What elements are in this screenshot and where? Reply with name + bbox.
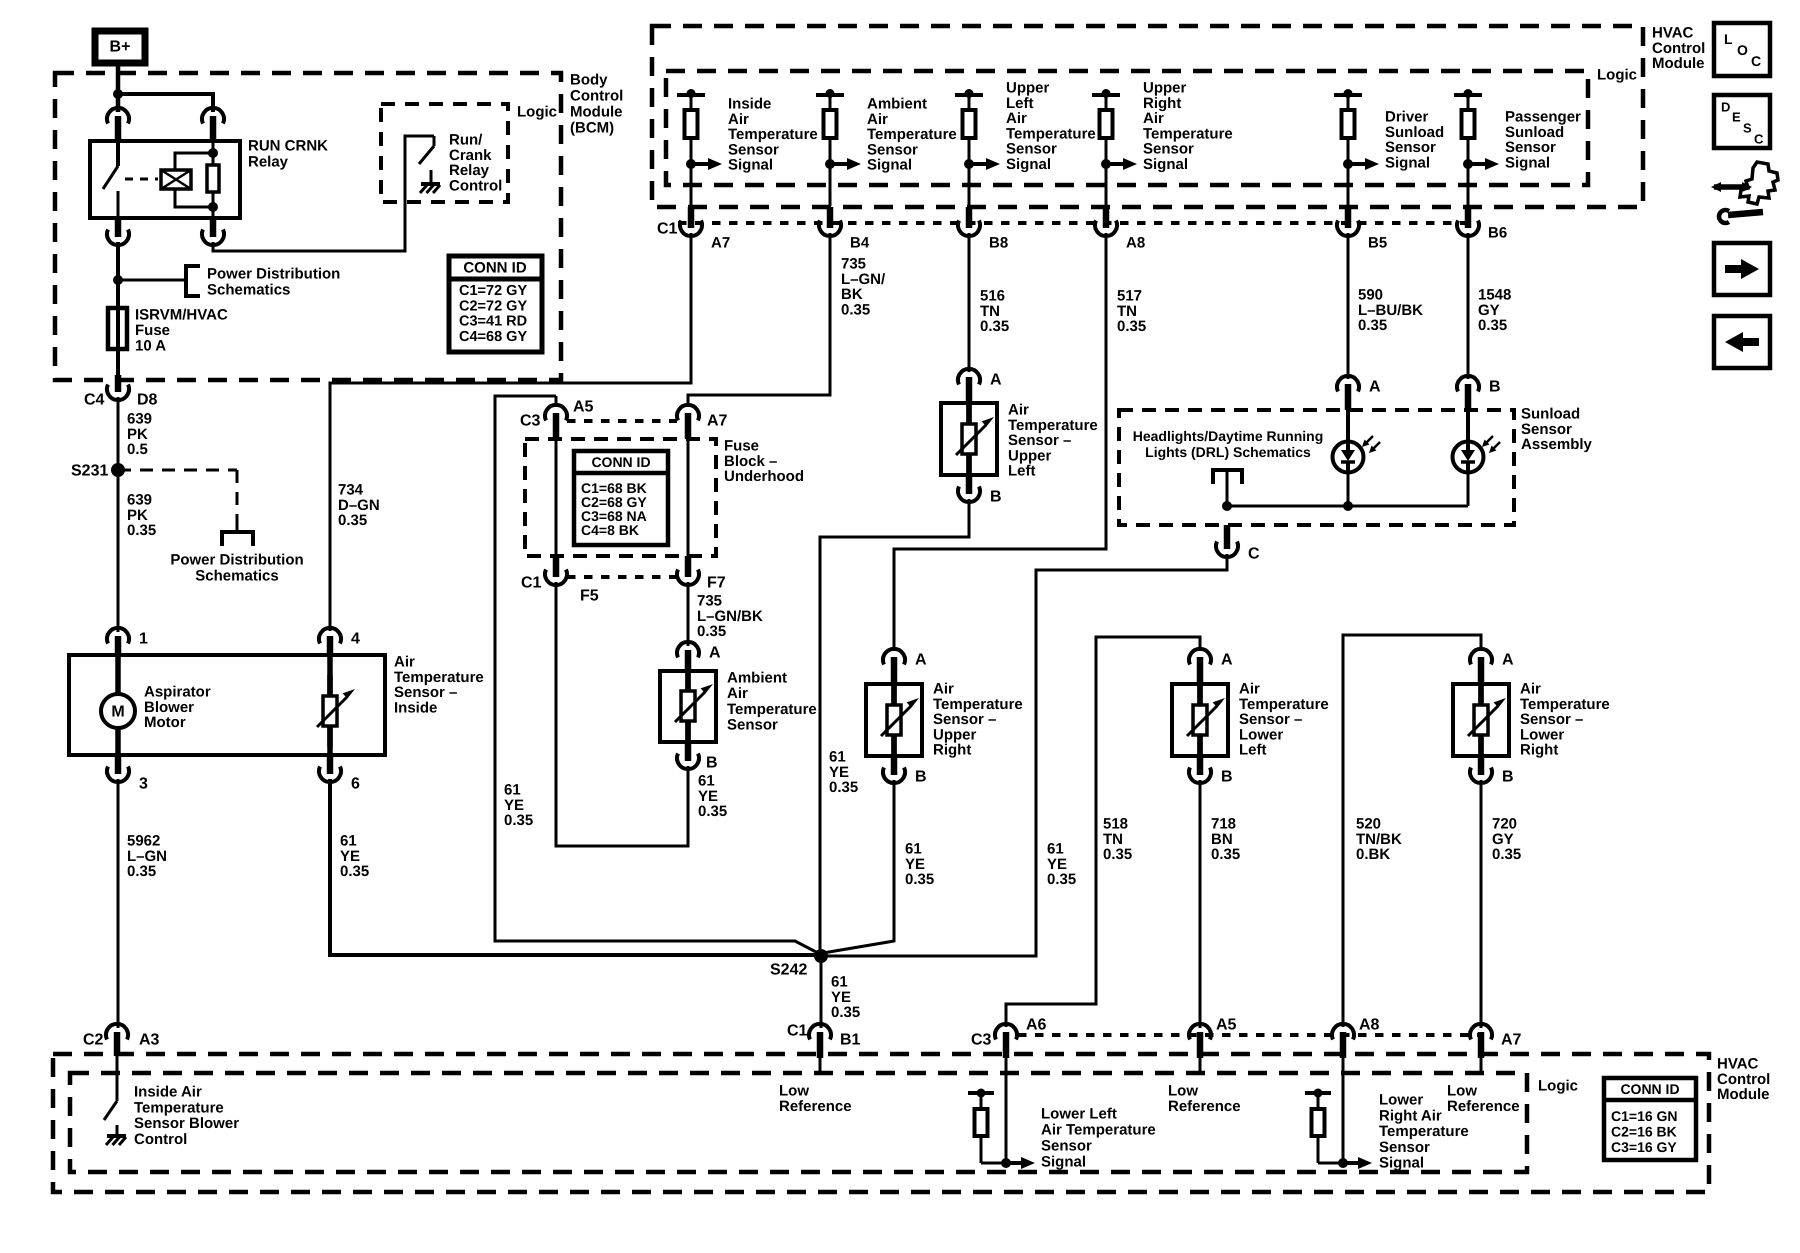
- connector A (lower right sensor): [1470, 649, 1514, 684]
- DRL reference bracket: [1213, 470, 1242, 506]
- svg-text:Signal: Signal: [1385, 154, 1430, 171]
- svg-text:Logic: Logic: [517, 104, 557, 121]
- svg-text:Temperature: Temperature: [134, 1099, 224, 1116]
- inside air temp sensor blower control label: [134, 1084, 239, 1148]
- svg-text:0.35: 0.35: [338, 512, 367, 529]
- battery feed B+ terminal: [95, 31, 145, 63]
- svg-text:S242: S242: [770, 962, 807, 979]
- svg-text:Body: Body: [570, 72, 608, 89]
- svg-text:A7: A7: [711, 235, 730, 252]
- svg-text:0.35: 0.35: [1211, 846, 1240, 863]
- wire label 718 BN 0.35: [1211, 816, 1240, 864]
- ambient air temperature sensor thermistor: [675, 670, 713, 742]
- svg-text:A7: A7: [1501, 1032, 1522, 1049]
- driver sunload sensor signal input: [1334, 89, 1444, 206]
- wire label 61 YE 0.35 (S242): [831, 974, 860, 1022]
- svg-text:Right: Right: [933, 742, 971, 759]
- HVAC logic dashed box (bottom): [70, 1073, 1527, 1172]
- svg-text:Sensor: Sensor: [1041, 1138, 1092, 1155]
- CONN ID table (bottom): [1604, 1078, 1696, 1160]
- svg-text:C3: C3: [520, 413, 541, 430]
- wire label 734 D-GN 0.35: [338, 482, 380, 530]
- wire 61 YE F5 loop to ambient sensor B: [556, 582, 688, 846]
- svg-text:F7: F7: [707, 575, 726, 592]
- wire label 61 YE 0.35 (upper left): [829, 749, 858, 797]
- wire label 61 YE 0.35 (sunload): [1047, 841, 1076, 889]
- aspirator blower motor label: [144, 684, 211, 732]
- svg-text:A7: A7: [707, 413, 728, 430]
- wire label 639 PK 0.5: [127, 411, 152, 459]
- svg-text:Lower: Lower: [1379, 1092, 1423, 1109]
- run/crank relay control label: [449, 132, 502, 195]
- svg-text:0.35: 0.35: [905, 871, 934, 888]
- connector C4/D8 labels: [84, 392, 158, 409]
- connector B (upper left sensor): [958, 475, 1002, 506]
- svg-text:C: C: [1248, 546, 1260, 563]
- connector pin 6: [319, 755, 360, 793]
- svg-text:Air Temperature: Air Temperature: [1041, 1122, 1156, 1139]
- svg-text:0.35: 0.35: [1492, 846, 1521, 863]
- svg-text:C2: C2: [83, 1032, 104, 1049]
- svg-text:S: S: [1743, 121, 1752, 136]
- svg-text:C1: C1: [657, 221, 678, 238]
- connector A (upper right sensor): [883, 649, 927, 684]
- wire label 518 TN 0.35: [1103, 816, 1132, 864]
- connector pin B4: [819, 207, 870, 252]
- air temperature sensor upper right thermistor: [881, 684, 919, 756]
- splice S242: [770, 949, 828, 979]
- wire 517 TN (A8 to upper right sensor): [894, 233, 1106, 651]
- connector pin B8: [958, 207, 1008, 252]
- svg-text:Left: Left: [1008, 463, 1036, 480]
- svg-text:Temperature: Temperature: [727, 701, 817, 718]
- svg-text:A5: A5: [573, 399, 594, 416]
- air temperature sensor - inside label: [394, 654, 484, 717]
- wire B+ to relay: [116, 63, 121, 112]
- svg-text:B8: B8: [989, 235, 1008, 252]
- wire 734 D-GN (C1/A7 to inside sensor): [330, 233, 691, 631]
- connector B (sunload): [1457, 376, 1501, 410]
- svg-text:B: B: [1502, 769, 1514, 786]
- svg-text:C: C: [1754, 132, 1764, 147]
- connector A (ambient sensor): [677, 642, 721, 671]
- sunload sensor assembly dashed box: [1119, 410, 1514, 525]
- svg-text:Fuse: Fuse: [135, 322, 170, 339]
- svg-text:A5: A5: [1216, 1017, 1237, 1034]
- wire label 61 YE 0.35 (ambient B): [698, 773, 727, 821]
- junction sunload mid: [1343, 501, 1353, 511]
- motor M symbol: [101, 655, 135, 755]
- run/crank control ground: [420, 170, 440, 193]
- svg-text:A8: A8: [1359, 1017, 1380, 1034]
- svg-text:B: B: [1221, 769, 1233, 786]
- svg-text:CONN ID: CONN ID: [1620, 1081, 1679, 1097]
- upper left air temperature sensor signal input: [955, 80, 1096, 207]
- svg-text:0.35: 0.35: [1478, 317, 1507, 334]
- wire relay to run/crank control: [213, 136, 434, 251]
- air temperature sensor lower right thermistor: [1468, 684, 1506, 756]
- svg-text:(BCM): (BCM): [570, 120, 614, 137]
- svg-text:C3=41 RD: C3=41 RD: [459, 314, 527, 330]
- svg-text:0.35: 0.35: [1358, 317, 1387, 334]
- svg-text:B6: B6: [1488, 225, 1507, 242]
- air temperature sensor lower left thermistor: [1187, 684, 1225, 756]
- svg-text:A3: A3: [139, 1032, 160, 1049]
- svg-text:B5: B5: [1368, 235, 1387, 252]
- svg-text:0.BK: 0.BK: [1356, 846, 1390, 863]
- svg-text:4: 4: [351, 631, 360, 648]
- svg-text:0.35: 0.35: [127, 522, 156, 539]
- connector C3/A5 (fuse block): [520, 396, 594, 439]
- aspirator blower motor box: [69, 655, 385, 755]
- svg-text:A: A: [1221, 652, 1233, 669]
- connector C1 label: [657, 221, 678, 238]
- svg-text:Relay: Relay: [248, 154, 289, 171]
- passenger sunload sensor signal input: [1454, 89, 1581, 206]
- HVAC control module label (bottom): [1717, 1056, 1770, 1104]
- connector relay pin bottom-right: [202, 218, 224, 245]
- connector C3/A6: [971, 1017, 1047, 1059]
- svg-text:A: A: [709, 645, 721, 662]
- run/crank control switch: [419, 136, 434, 164]
- wire label 61 YE 0.35 (upper right): [905, 841, 934, 889]
- wire S242 to B1: [820, 956, 823, 1028]
- connector A (upper left sensor): [958, 369, 1002, 403]
- wire 718 BN lower left B to A5: [1199, 780, 1202, 1028]
- ambient air temperature sensor signal input: [816, 89, 957, 206]
- connector pin A8: [1095, 207, 1145, 252]
- svg-text:CONN ID: CONN ID: [591, 454, 650, 470]
- CONN ID table (fuse block): [574, 451, 668, 545]
- wire label 517 TN 0.35: [1117, 288, 1146, 336]
- HVAC control module label (top): [1652, 25, 1705, 73]
- svg-text:D: D: [1721, 100, 1730, 115]
- lower right air temperature sensor signal input: [1305, 1058, 1469, 1172]
- arrow left icon: [1714, 316, 1770, 368]
- svg-text:Inside: Inside: [394, 699, 437, 716]
- air temperature sensor upper left label: [1008, 402, 1098, 480]
- svg-text:D8: D8: [137, 392, 158, 409]
- HVAC logic label (top): [1597, 67, 1637, 84]
- connector B (lower left sensor): [1189, 756, 1233, 786]
- svg-text:B4: B4: [850, 235, 870, 252]
- svg-text:Signal: Signal: [1379, 1155, 1424, 1172]
- svg-text:0.35: 0.35: [1117, 318, 1146, 335]
- BCM label: [570, 72, 623, 137]
- svg-text:C2=16 BK: C2=16 BK: [1611, 1124, 1677, 1140]
- svg-text:Right Air: Right Air: [1379, 1107, 1442, 1124]
- arrow right icon: [1714, 243, 1770, 295]
- connector pin A7: [680, 207, 730, 252]
- sunload sensor assembly label: [1521, 406, 1593, 454]
- RUN CRNK relay label: [248, 138, 328, 171]
- svg-text:C4: C4: [84, 392, 105, 409]
- LOC icon: [1714, 23, 1770, 76]
- air temperature sensor lower right label: [1520, 681, 1610, 759]
- HVAC logic label (bottom): [1538, 1078, 1578, 1095]
- svg-text:Schematics: Schematics: [195, 568, 278, 585]
- wire 735 F7 to ambient sensor A: [687, 582, 690, 646]
- wire relay to power distribution: [116, 242, 120, 375]
- connector A5 (bottom): [1189, 1017, 1237, 1059]
- wire 61 YE sunload C to S242: [827, 554, 1227, 956]
- wire 61 YE upper left B to S242: [820, 499, 969, 950]
- svg-text:C4=8 BK: C4=8 BK: [581, 522, 639, 538]
- svg-text:0.35: 0.35: [831, 1004, 860, 1021]
- svg-text:Control: Control: [449, 177, 502, 194]
- svg-text:C: C: [1751, 53, 1761, 69]
- svg-text:0.35: 0.35: [698, 803, 727, 820]
- low reference label (B1): [779, 1083, 852, 1115]
- air temperature sensor upper right box: [866, 684, 922, 756]
- svg-text:Inside Air: Inside Air: [134, 1084, 202, 1101]
- svg-text:Signal: Signal: [867, 157, 912, 174]
- relay switch: [103, 141, 118, 218]
- bottom connector dotted line: [1018, 1033, 1481, 1037]
- car adjust icon: [1711, 162, 1778, 223]
- wire label 61 YE 0.35 (F5): [504, 782, 533, 830]
- air temperature sensor lower left box: [1172, 684, 1228, 756]
- svg-text:C3: C3: [971, 1032, 992, 1049]
- connector pin 3: [107, 755, 148, 793]
- HVAC C1 connector dotted line: [678, 221, 1480, 225]
- fuse label: [135, 307, 228, 355]
- svg-text:E: E: [1732, 110, 1741, 125]
- svg-text:B: B: [990, 489, 1002, 506]
- svg-text:Module: Module: [1717, 1086, 1770, 1103]
- relay armature link dashes: [125, 178, 158, 181]
- wire 720 GY lower right B to A7: [1480, 780, 1483, 1028]
- air temperature sensor lower right box: [1453, 684, 1509, 756]
- svg-text:C1: C1: [521, 575, 542, 592]
- headlights DRL schematics label: [1133, 428, 1324, 460]
- svg-text:A: A: [1369, 379, 1381, 396]
- wire A5 low reference stub: [1199, 1058, 1202, 1073]
- svg-text:A: A: [915, 652, 927, 669]
- svg-text:Signal: Signal: [1143, 156, 1188, 173]
- svg-text:Schematics: Schematics: [207, 282, 290, 299]
- svg-text:0.35: 0.35: [127, 863, 156, 880]
- svg-text:Left: Left: [1239, 742, 1267, 759]
- svg-text:CONN ID: CONN ID: [463, 260, 527, 277]
- connector pin 1: [107, 628, 148, 655]
- svg-text:Module: Module: [1652, 55, 1705, 72]
- relay coil resistor: [207, 141, 219, 218]
- svg-text:Power Distribution: Power Distribution: [207, 266, 340, 283]
- ambient air temperature sensor box: [660, 671, 716, 742]
- svg-text:3: 3: [139, 776, 148, 793]
- wire label 639 PK 0.35: [127, 492, 156, 540]
- air temperature sensor lower left label: [1239, 681, 1329, 759]
- wire label 516 TN 0.35: [980, 288, 1009, 336]
- svg-text:Logic: Logic: [1597, 67, 1637, 84]
- svg-text:0.35: 0.35: [697, 623, 726, 640]
- wire label 735 L-GN/BK 0.35 (F7): [697, 593, 763, 641]
- wire label 520 TN/BK 0.BK: [1356, 816, 1402, 864]
- junction sunload left: [1222, 501, 1232, 511]
- body control module (BCM) dashed box: [55, 73, 561, 380]
- connector C1/F5 (fuse block): [521, 556, 599, 605]
- svg-text:Right: Right: [1520, 742, 1558, 759]
- RUN CRNK relay box: [90, 141, 240, 218]
- svg-text:B: B: [1489, 379, 1501, 396]
- svg-text:Control: Control: [570, 88, 623, 105]
- svg-text:Signal: Signal: [1006, 156, 1051, 173]
- svg-text:Power Distribution: Power Distribution: [170, 552, 303, 569]
- DESC icon: [1714, 95, 1770, 148]
- svg-text:Sensor: Sensor: [1379, 1139, 1430, 1156]
- connector relay pin bottom-left: [107, 218, 129, 245]
- svg-text:F5: F5: [580, 588, 599, 605]
- svg-text:Sensor Blower: Sensor Blower: [134, 1115, 239, 1132]
- sunload common wire: [1227, 472, 1468, 506]
- fuse block internal wire right: [687, 439, 690, 556]
- connector pin 4: [319, 628, 360, 655]
- svg-text:Assembly: Assembly: [1521, 436, 1593, 453]
- fuse block dotted line bottom: [567, 575, 677, 579]
- svg-text:Reference: Reference: [1168, 1098, 1241, 1115]
- connector A7 (bottom): [1470, 1024, 1522, 1058]
- wire 518 TN (A6 to lower left sensor): [1006, 637, 1200, 1027]
- wire 61 YE upper right B to S242: [823, 780, 894, 953]
- svg-text:ISRVM/HVAC: ISRVM/HVAC: [135, 307, 228, 324]
- svg-text:B1: B1: [840, 1032, 861, 1049]
- wire 61 YE fuse A5 to S242: [495, 396, 818, 953]
- svg-text:0.35: 0.35: [340, 863, 369, 880]
- connector C (sunload): [1216, 525, 1260, 563]
- svg-text:1: 1: [139, 631, 148, 648]
- svg-text:M: M: [111, 704, 124, 721]
- svg-text:0.35: 0.35: [504, 812, 533, 829]
- svg-text:10 A: 10 A: [135, 338, 166, 355]
- svg-text:B: B: [915, 769, 927, 786]
- connector A7 (fuse block): [677, 405, 728, 439]
- wire label 61 YE 0.35 (pin 6): [340, 833, 369, 881]
- wire label 720 GY 0.35: [1492, 816, 1521, 864]
- wire label 5962 L-GN 0.35: [127, 833, 167, 881]
- fuse block underhood label: [724, 438, 804, 486]
- junction power distribution tap: [113, 275, 123, 285]
- svg-text:C4=68 GY: C4=68 GY: [459, 329, 527, 345]
- connector C4/D8: [107, 375, 129, 400]
- svg-text:Control: Control: [134, 1131, 187, 1148]
- wire 1548 B6 to sunload B: [1467, 233, 1470, 379]
- power distribution schematics label 2: [170, 552, 303, 585]
- wire A7 low reference stub: [1480, 1058, 1483, 1073]
- CONN ID table (BCM): [449, 256, 542, 352]
- svg-text:C1: C1: [787, 1023, 808, 1040]
- svg-text:Temperature: Temperature: [1379, 1123, 1469, 1140]
- svg-text:Reference: Reference: [779, 1098, 852, 1115]
- passenger sunload photodiode: [1453, 410, 1501, 473]
- wire label 735 L-GN/BK (B4): [841, 256, 886, 319]
- connector pin B5: [1337, 207, 1387, 252]
- svg-text:Signal: Signal: [1505, 154, 1550, 171]
- svg-text:Lower Left: Lower Left: [1041, 1106, 1117, 1123]
- relay coil: [161, 153, 213, 207]
- svg-text:B+: B+: [110, 39, 131, 56]
- connector C1/B1: [787, 1023, 861, 1059]
- svg-text:A6: A6: [1026, 1017, 1047, 1034]
- svg-text:Sensor: Sensor: [727, 717, 778, 734]
- svg-text:Headlights/Daytime Running: Headlights/Daytime Running: [1133, 428, 1324, 444]
- connector A (lower left sensor): [1189, 649, 1233, 684]
- wire branch to relay coil: [118, 94, 213, 112]
- connector C2/A3: [83, 1024, 160, 1056]
- svg-text:RUN CRNK: RUN CRNK: [248, 138, 328, 155]
- dashed reference wire from S231: [118, 470, 237, 531]
- svg-text:C1=72 GY: C1=72 GY: [459, 283, 527, 299]
- svg-text:Motor: Motor: [144, 714, 186, 731]
- wire 520 TN/BK (A8 to lower right sensor): [1343, 635, 1481, 1027]
- svg-text:Underhood: Underhood: [724, 468, 804, 485]
- air temperature sensor - inside (thermistor): [317, 655, 355, 755]
- junction relay coil top: [208, 148, 218, 158]
- svg-text:L: L: [1724, 31, 1733, 47]
- svg-text:0.5: 0.5: [127, 441, 148, 458]
- svg-text:Logic: Logic: [1538, 1078, 1578, 1095]
- power distribution reference bracket 2: [222, 532, 253, 546]
- air temperature sensor upper left thermistor: [956, 403, 994, 475]
- connector pin B6: [1457, 207, 1507, 242]
- wire 516 TN (B8 to upper left sensor): [968, 233, 971, 372]
- connector A (sunload): [1337, 376, 1381, 410]
- lower left air temperature sensor signal input: [968, 1058, 1156, 1171]
- HVAC logic dashed box (top): [666, 71, 1588, 185]
- wire 735 to fuse block A7: [688, 233, 830, 407]
- svg-text:0.35: 0.35: [980, 318, 1009, 335]
- air temperature sensor upper right label: [933, 681, 1023, 759]
- svg-text:C2=72 GY: C2=72 GY: [459, 298, 527, 314]
- inside air temperature sensor signal input: [677, 89, 818, 206]
- svg-text:Module: Module: [570, 104, 623, 121]
- power distribution schematics label (BCM): [207, 266, 340, 299]
- wire label 590 L-BU/BK 0.35: [1358, 287, 1423, 335]
- svg-text:B: B: [706, 755, 718, 772]
- junction relay coil bottom: [208, 202, 218, 212]
- svg-text:Signal: Signal: [1041, 1154, 1086, 1171]
- svg-text:A: A: [1502, 652, 1514, 669]
- svg-text:Lights (DRL) Schematics: Lights (DRL) Schematics: [1145, 444, 1311, 460]
- run/crank relay control dashed box: [381, 104, 508, 202]
- svg-text:S231: S231: [71, 463, 108, 480]
- wire 5962 L-GN: [117, 779, 120, 1028]
- svg-text:A8: A8: [1126, 235, 1145, 252]
- svg-text:O: O: [1737, 42, 1748, 58]
- fuse block internal wire left: [555, 439, 558, 556]
- connector A8 (bottom): [1332, 1017, 1380, 1059]
- svg-text:Ambient: Ambient: [727, 670, 787, 687]
- wire B1 low reference stub: [819, 1058, 822, 1073]
- air temperature sensor upper left box: [941, 403, 997, 475]
- low reference label (A5): [1168, 1083, 1241, 1115]
- wire to power distribution bracket: [118, 279, 186, 282]
- fuse ISRVM/HVAC 10A: [108, 308, 127, 349]
- splice S231: [71, 463, 125, 480]
- HVAC control module dashed box (top): [652, 26, 1643, 207]
- upper right air temperature sensor signal input: [1092, 80, 1233, 207]
- connector F7 (fuse block): [677, 556, 726, 592]
- power distribution reference bracket: [186, 266, 200, 296]
- connector B (lower right sensor): [1470, 756, 1514, 786]
- wire 590 B5 to sunload A: [1347, 233, 1350, 379]
- connector relay pin top-right: [202, 108, 224, 141]
- svg-text:Reference: Reference: [1447, 1098, 1520, 1115]
- connector B (ambient sensor): [677, 742, 718, 772]
- svg-text:Signal: Signal: [728, 157, 773, 174]
- wire 639 PK: [117, 397, 120, 632]
- wire 61 YE from pin 6 to S242: [330, 779, 816, 955]
